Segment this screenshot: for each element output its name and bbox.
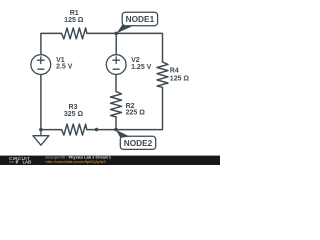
wire R3 right to NODE2 junction bbox=[87, 129, 116, 131]
svg-text:R1: R1 bbox=[70, 10, 79, 17]
junction dot at NODE2 bbox=[114, 128, 118, 132]
wire V2 minus terminal to R2 top bbox=[115, 74, 117, 91]
wire ground junction to R3 left bbox=[41, 129, 62, 131]
svg-text:325 Ω: 325 Ω bbox=[64, 111, 84, 118]
svg-text:R3: R3 bbox=[69, 104, 78, 111]
svg-text:http://circuitlab.com/c/5pt62j: http://circuitlab.com/c/5pt62j4y3z9 bbox=[46, 160, 106, 164]
resistor R3 bbox=[62, 124, 87, 135]
svg-text:LAB: LAB bbox=[23, 160, 32, 165]
wire V1 top to R1 left bbox=[41, 33, 62, 55]
svg-text:125 Ω: 125 Ω bbox=[170, 75, 190, 82]
svg-text:1.25 V: 1.25 V bbox=[131, 64, 152, 71]
svg-text:NODE1: NODE1 bbox=[126, 14, 155, 24]
node NODE2 callout bbox=[116, 130, 156, 150]
svg-text:NODE2: NODE2 bbox=[124, 138, 153, 148]
wire R1 right to node NODE1 junction bbox=[87, 32, 116, 34]
svg-text:225 Ω: 225 Ω bbox=[126, 110, 146, 117]
svg-text:R4: R4 bbox=[170, 67, 179, 74]
CircuitLab logo wordmark bbox=[9, 156, 31, 165]
voltage source V1 bbox=[31, 55, 51, 75]
wire NODE1 junction to R4 top bbox=[116, 33, 162, 62]
junction dot mid bottom wire bbox=[95, 128, 99, 132]
junction dot at ground node bbox=[39, 128, 43, 132]
resistor R4 bbox=[157, 62, 168, 87]
wire NODE1 junction down to V2 plus terminal bbox=[115, 33, 117, 55]
svg-text:2.5 V: 2.5 V bbox=[56, 64, 73, 71]
node NODE1 callout bbox=[117, 12, 158, 33]
wire R4 bottom to bottom-right corner to NODE2 junction bbox=[116, 87, 163, 129]
resistor R2 bbox=[111, 92, 122, 117]
ground symbol bbox=[33, 130, 49, 146]
footer bar bbox=[0, 156, 220, 165]
resistor R1 bbox=[62, 28, 87, 39]
wire R2 bottom to NODE2 junction bbox=[115, 117, 117, 130]
wire V1 bottom to ground junction bbox=[40, 74, 42, 129]
voltage source V2 bbox=[106, 55, 126, 75]
junction dot at NODE1 bbox=[114, 32, 118, 36]
svg-text:125 Ω: 125 Ω bbox=[64, 17, 84, 24]
